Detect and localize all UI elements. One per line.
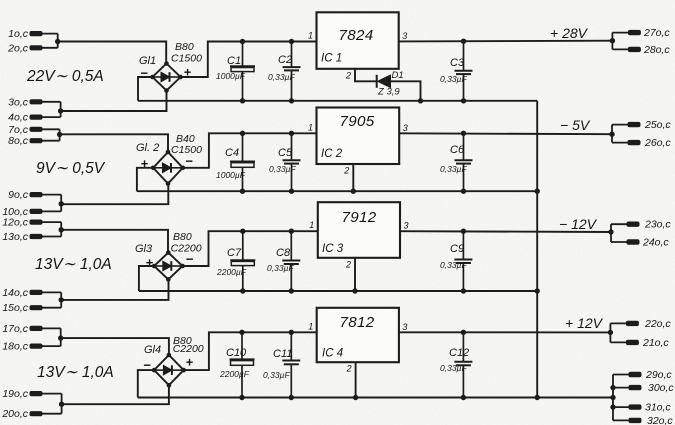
terminal 12o,c — [2, 217, 61, 229]
wire: -5V output rail — [399, 132, 612, 135]
svg-text:− 12V: − 12V — [559, 216, 598, 232]
terminal 23o,c — [611, 219, 671, 231]
svg-text:C7: C7 — [227, 247, 242, 259]
bridge rectifier Gl3 — [152, 250, 185, 281]
svg-text:0,33µF: 0,33µF — [440, 363, 467, 373]
svg-text:C1: C1 — [227, 55, 241, 67]
diode D1 — [377, 70, 404, 98]
wire: IC4 pin 2 to ground rail — [355, 362, 357, 397]
wire: bridge Gl4 plus to IC4 input — [184, 332, 317, 370]
node: row2 ground junction — [535, 189, 540, 194]
terminal 8o,c — [8, 135, 59, 147]
wire: bridge Gl1 minus to ground rail — [138, 77, 153, 101]
svg-text:C1500: C1500 — [171, 53, 202, 65]
svg-text:Z 3,9: Z 3,9 — [377, 87, 400, 98]
svg-text:C2: C2 — [278, 54, 292, 66]
svg-text:C2200: C2200 — [173, 343, 204, 355]
svg-text:IC 4: IC 4 — [322, 348, 343, 360]
capacitor C8 0,33µF — [267, 229, 300, 294]
svg-text:32o,c: 32o,c — [647, 415, 673, 425]
wire: IC2 pin 2 to ground rail — [352, 164, 354, 191]
svg-text:25o,c: 25o,c — [644, 119, 671, 131]
svg-text:31o,c: 31o,c — [645, 402, 671, 414]
voltage regulator IC 3 7912 — [318, 202, 400, 258]
svg-text:+ 12V: + 12V — [565, 315, 604, 331]
wire: AC input to bridge Gl4 top — [61, 338, 169, 355]
terminal 25o,c — [612, 119, 671, 131]
terminal 20o,c — [1, 408, 61, 420]
capacitor C3 0,33µF — [440, 39, 473, 104]
wire: IC1 pin 2 to diode D1 — [355, 69, 377, 82]
terminal 9o,c — [8, 189, 61, 201]
wire: terminal pair bracket — [59, 195, 64, 212]
terminal 14o,c — [2, 287, 61, 299]
wire: row2 ground rail — [137, 190, 537, 192]
svg-text:1o,c: 1o,c — [8, 28, 29, 40]
wire: +28V output rail — [399, 40, 613, 43]
svg-text:21o,c: 21o,c — [642, 337, 669, 349]
wire: +12V output rail — [399, 331, 611, 333]
wire: bridge Gl2 minus to IC2 input — [183, 133, 317, 168]
svg-text:9o,c: 9o,c — [8, 189, 29, 201]
terminal 22o,c — [610, 318, 671, 330]
capacitor C2 0,33µF — [268, 39, 301, 104]
svg-text:2: 2 — [346, 364, 352, 374]
wire: output bracket -5V — [611, 125, 613, 143]
svg-text:2200µF: 2200µF — [219, 369, 250, 379]
wire: ground terminal bracket — [612, 375, 614, 421]
svg-text:B80: B80 — [175, 41, 194, 53]
svg-text:−: − — [185, 154, 193, 169]
svg-text:IC 3: IC 3 — [322, 243, 344, 255]
node: +12V output junction — [608, 330, 613, 335]
terminal 1o,c — [8, 28, 58, 40]
wire: AC return to bridge Gl3 bottom — [61, 279, 168, 300]
svg-text:13V∼ 1,0A: 13V∼ 1,0A — [35, 256, 112, 273]
capacitor C9 0,33µF — [440, 229, 472, 294]
terminal 21o,c — [610, 337, 669, 349]
svg-text:14o,c: 14o,c — [2, 287, 28, 299]
terminal 13o,c — [2, 231, 61, 243]
svg-text:2o,c: 2o,c — [7, 42, 29, 54]
svg-text:− 5V: − 5V — [560, 117, 591, 133]
svg-text:−: − — [140, 66, 148, 81]
svg-text:19o,c: 19o,c — [2, 388, 28, 400]
svg-text:13o,c: 13o,c — [2, 231, 28, 243]
svg-text:1: 1 — [309, 220, 314, 230]
svg-text:3: 3 — [402, 31, 407, 41]
svg-text:22V∼ 0,5A: 22V∼ 0,5A — [26, 68, 104, 85]
svg-text:2200µF: 2200µF — [216, 267, 247, 277]
terminal 24o,c — [611, 237, 669, 249]
svg-text:20o,c: 20o,c — [1, 408, 28, 420]
terminal 32o,c — [613, 415, 673, 425]
svg-text:24o,c: 24o,c — [642, 237, 669, 249]
wire: bridge Gl4 minus to ground rail — [138, 370, 154, 397]
svg-text:0,33µF: 0,33µF — [440, 74, 467, 84]
terminal 10o,c — [2, 206, 61, 218]
svg-text:3: 3 — [404, 221, 409, 231]
svg-text:C6: C6 — [450, 144, 465, 156]
voltage regulator IC 2 7905 — [317, 108, 400, 165]
capacitor C7 2200µF — [216, 229, 255, 294]
wire: row3 ground rail — [139, 290, 537, 292]
svg-text:7824: 7824 — [339, 27, 374, 44]
svg-text:1: 1 — [308, 122, 313, 132]
svg-text:0,33µF: 0,33µF — [440, 164, 467, 174]
svg-text:18o,c: 18o,c — [2, 341, 28, 353]
terminal 27o,c — [612, 27, 670, 39]
wire: AC return to bridge Gl2 bottom — [61, 184, 168, 205]
svg-text:C9: C9 — [450, 243, 464, 255]
svg-text:0,33µF: 0,33µF — [269, 164, 296, 174]
wire: terminal pair bracket — [59, 394, 64, 414]
svg-text:0,33µF: 0,33µF — [440, 260, 467, 270]
wire: output bracket +28V — [611, 33, 613, 50]
capacitor C12 0,33µF — [440, 330, 472, 401]
svg-text:1000µF: 1000µF — [216, 71, 246, 81]
bridge rectifier Gl. 2 — [151, 150, 185, 186]
svg-text:7812: 7812 — [340, 314, 375, 331]
svg-text:IC 2: IC 2 — [321, 148, 343, 160]
bridge rectifier Gl1 — [150, 61, 183, 93]
wire: row1 ground rail — [138, 100, 537, 102]
svg-text:7905: 7905 — [340, 113, 375, 130]
wire: terminal pair bracket — [58, 328, 63, 346]
node: -12V output junction — [608, 229, 613, 234]
node: -5V output junction — [609, 132, 614, 137]
svg-text:2: 2 — [345, 70, 351, 80]
wire: row4 ground rail — [138, 397, 613, 399]
svg-text:D1: D1 — [392, 70, 404, 81]
svg-text:12o,c: 12o,c — [2, 217, 28, 229]
svg-text:+: + — [146, 255, 154, 270]
svg-text:0,33µF: 0,33µF — [268, 72, 295, 82]
wire: AC return to bridge Gl4 bottom — [62, 385, 169, 404]
wire: terminal pair bracket — [55, 34, 60, 48]
wire: AC return to bridge Gl1 bottom — [61, 91, 167, 112]
svg-text:3: 3 — [402, 322, 407, 332]
svg-text:Gl4: Gl4 — [144, 344, 161, 356]
voltage regulator IC 1 7824 — [317, 12, 399, 69]
capacitor C6 0,33µF — [440, 131, 473, 194]
svg-text:+: + — [186, 355, 194, 370]
wire: terminal pair bracket — [59, 292, 64, 307]
svg-text:2: 2 — [343, 166, 349, 176]
svg-text:4o,c: 4o,c — [8, 112, 29, 124]
terminal 26o,c — [612, 137, 671, 149]
terminal 4o,c — [8, 112, 60, 124]
wire: IC3 pin 2 to ground rail — [354, 258, 356, 291]
wire: D1 to ground rail — [391, 81, 421, 101]
svg-text:0,33µF: 0,33µF — [267, 263, 294, 273]
node: row3 ground junction — [535, 288, 540, 293]
terminal 2o,c — [7, 42, 58, 54]
terminal 7o,c — [8, 124, 59, 136]
terminal 30o,c — [613, 382, 674, 394]
svg-text:Gl3: Gl3 — [135, 243, 153, 255]
capacitor C10 2200µF — [219, 330, 255, 401]
wire: terminal pair bracket — [58, 102, 63, 117]
terminal 28o,c — [612, 44, 670, 56]
svg-text:C3: C3 — [450, 57, 465, 69]
svg-text:27o,c: 27o,c — [643, 27, 670, 39]
wire: terminal pair bracket — [57, 129, 62, 140]
svg-text:29o,c: 29o,c — [645, 369, 672, 381]
svg-text:2: 2 — [345, 259, 351, 269]
svg-text:15o,c: 15o,c — [2, 302, 28, 314]
terminal 18o,c — [2, 341, 60, 353]
terminal 31o,c — [613, 402, 671, 414]
svg-text:+ 28V: + 28V — [550, 25, 589, 41]
wire: AC input to bridge Gl1 top — [58, 42, 167, 64]
terminal 3o,c — [8, 96, 60, 108]
svg-text:B80: B80 — [173, 231, 192, 243]
wire: bridge Gl3 plus to ground rail — [139, 266, 154, 291]
svg-text:7912: 7912 — [342, 209, 377, 226]
svg-text:1: 1 — [308, 31, 313, 41]
node: +28V output junction — [610, 38, 615, 43]
svg-text:C8: C8 — [276, 247, 291, 259]
voltage regulator IC 4 7812 — [317, 308, 399, 362]
svg-text:C5: C5 — [278, 147, 293, 159]
wire: output bracket +12V — [609, 323, 611, 342]
svg-text:1: 1 — [308, 321, 313, 331]
svg-text:0,33µF: 0,33µF — [263, 370, 290, 380]
svg-text:C12: C12 — [449, 347, 469, 359]
svg-text:−: − — [186, 252, 194, 267]
svg-text:1000µF: 1000µF — [216, 170, 246, 180]
svg-text:C4: C4 — [225, 147, 239, 159]
capacitor C5 0,33µF — [269, 131, 301, 194]
terminal 29o,c — [613, 369, 672, 381]
svg-text:30o,c: 30o,c — [648, 382, 674, 394]
terminal 19o,c — [2, 388, 61, 400]
svg-text:Gl. 2: Gl. 2 — [136, 142, 159, 154]
svg-text:13V∼ 1,0A: 13V∼ 1,0A — [37, 364, 114, 381]
svg-text:C11: C11 — [273, 348, 292, 360]
svg-text:23o,c: 23o,c — [644, 219, 671, 231]
wire: output bracket -12V — [610, 224, 612, 242]
wire: AC input to bridge Gl2 top — [60, 134, 168, 152]
svg-text:8o,c: 8o,c — [8, 135, 29, 147]
wire: bridge Gl3 minus to IC3 input — [183, 231, 318, 266]
wire: AC input to bridge Gl3 top — [61, 230, 168, 253]
node: ground bracket junctions — [610, 385, 615, 390]
wire: terminal pair bracket — [59, 222, 64, 236]
wire: -12V output rail — [400, 230, 611, 233]
svg-text:C10: C10 — [226, 347, 247, 359]
wire: bridge Gl1 plus to IC1 input — [181, 42, 317, 78]
svg-text:7o,c: 7o,c — [8, 124, 29, 136]
svg-text:22o,c: 22o,c — [644, 318, 671, 330]
svg-text:3: 3 — [403, 123, 408, 133]
terminal 17o,c — [2, 323, 60, 335]
node: row4 ground junction — [535, 395, 540, 400]
capacitor C4 1000µF — [216, 131, 255, 194]
capacitor C11 0,33µF — [263, 330, 300, 401]
svg-text:IC 1: IC 1 — [321, 53, 342, 65]
svg-text:26o,c: 26o,c — [644, 137, 671, 149]
svg-text:28o,c: 28o,c — [643, 44, 670, 56]
capacitor C1 1000µF — [216, 39, 255, 104]
terminal 15o,c — [2, 302, 61, 314]
svg-text:17o,c: 17o,c — [2, 323, 28, 335]
svg-text:3o,c: 3o,c — [8, 96, 29, 108]
svg-text:9V∼ 0,5V: 9V∼ 0,5V — [36, 160, 106, 177]
wire: common ground bus vertical — [536, 101, 538, 398]
bridge rectifier Gl4 — [152, 353, 186, 388]
wire: bridge Gl2 plus to ground rail — [137, 168, 153, 191]
